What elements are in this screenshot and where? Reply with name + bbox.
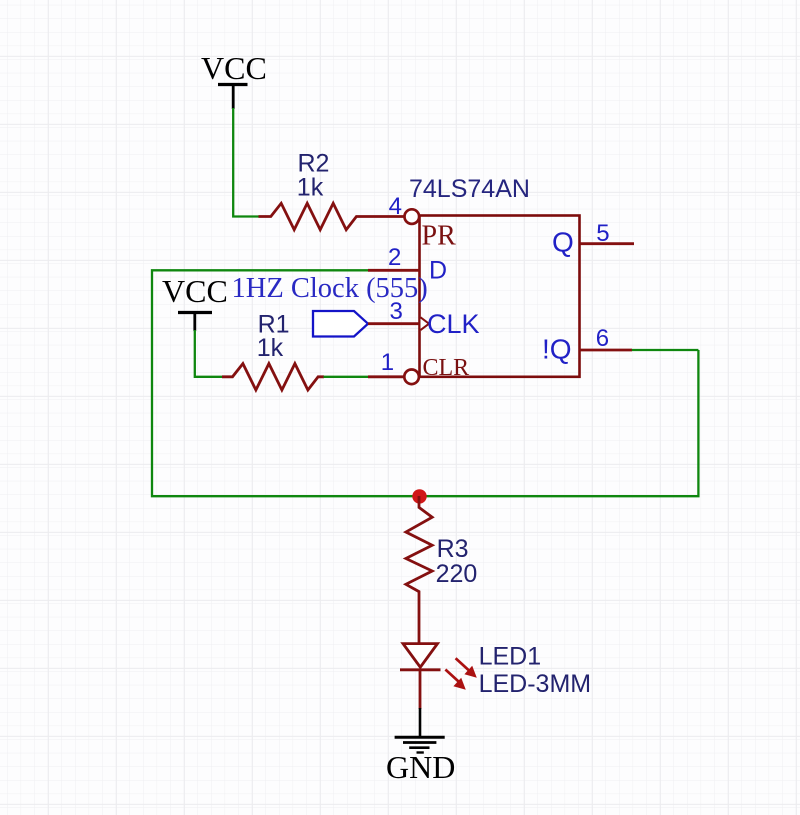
resistor R3: [406, 496, 432, 644]
svg-text:6: 6: [596, 325, 609, 352]
svg-text:R3: R3: [437, 535, 469, 563]
junction node (red dot): [412, 489, 426, 503]
svg-text:1k: 1k: [297, 174, 324, 202]
svg-text:LED-3MM: LED-3MM: [479, 670, 592, 698]
svg-text:!Q: !Q: [542, 333, 572, 364]
LED1 emission arrow (lower): [445, 670, 465, 690]
svg-text:Q: Q: [552, 227, 574, 258]
svg-text:74LS74AN: 74LS74AN: [409, 175, 530, 203]
op-amp U1 74LS74AN body: [420, 216, 580, 377]
net flag 1HZ Clock (555): [232, 273, 428, 337]
svg-text:VCC: VCC: [162, 273, 228, 309]
pin 4 inversion bubble (PR): [405, 209, 420, 224]
resistor R1: [222, 364, 324, 390]
svg-text:1: 1: [381, 349, 394, 376]
wire !Q feedback to D pin (left segment): [152, 270, 698, 496]
LED1 emission arrow (upper): [456, 658, 477, 678]
svg-text:CLR: CLR: [423, 355, 470, 381]
power flag VCC (second, net VCC): [162, 273, 228, 331]
resistor R2: [259, 203, 405, 229]
pin 3 lead (CLK): [368, 322, 420, 325]
wire LED to GND: [419, 708, 422, 737]
svg-text:VCC: VCC: [201, 50, 267, 86]
pin 2 lead (D): [368, 269, 420, 272]
svg-text:220: 220: [436, 560, 478, 588]
svg-text:PR: PR: [422, 221, 457, 252]
wire VCC to R2: [233, 108, 259, 217]
clock input triangle: [421, 317, 430, 330]
pin 1 lead (CLR): [368, 375, 404, 378]
svg-text:GND: GND: [386, 749, 455, 785]
wire VCC2 to R1: [195, 330, 223, 377]
pin 5 lead (Q output): [580, 242, 635, 245]
pin 1 inversion bubble (CLR): [404, 370, 419, 385]
wire !Q to right vertical: [632, 349, 699, 351]
LED LED1 symbol: [400, 644, 441, 709]
wire R1 to CLR pin: [324, 376, 369, 378]
pin 6 lead (!Q output): [580, 349, 633, 352]
svg-text:4: 4: [389, 193, 402, 220]
svg-text:CLK: CLK: [427, 309, 480, 339]
power flag VCC (top, net VCC): [201, 50, 267, 109]
svg-text:5: 5: [596, 220, 609, 247]
svg-text:2: 2: [388, 244, 401, 271]
svg-text:1k: 1k: [257, 334, 284, 362]
ground symbol GND: [386, 737, 455, 785]
svg-text:LED1: LED1: [479, 643, 542, 671]
svg-text:D: D: [429, 257, 447, 285]
svg-text:3: 3: [390, 298, 403, 325]
